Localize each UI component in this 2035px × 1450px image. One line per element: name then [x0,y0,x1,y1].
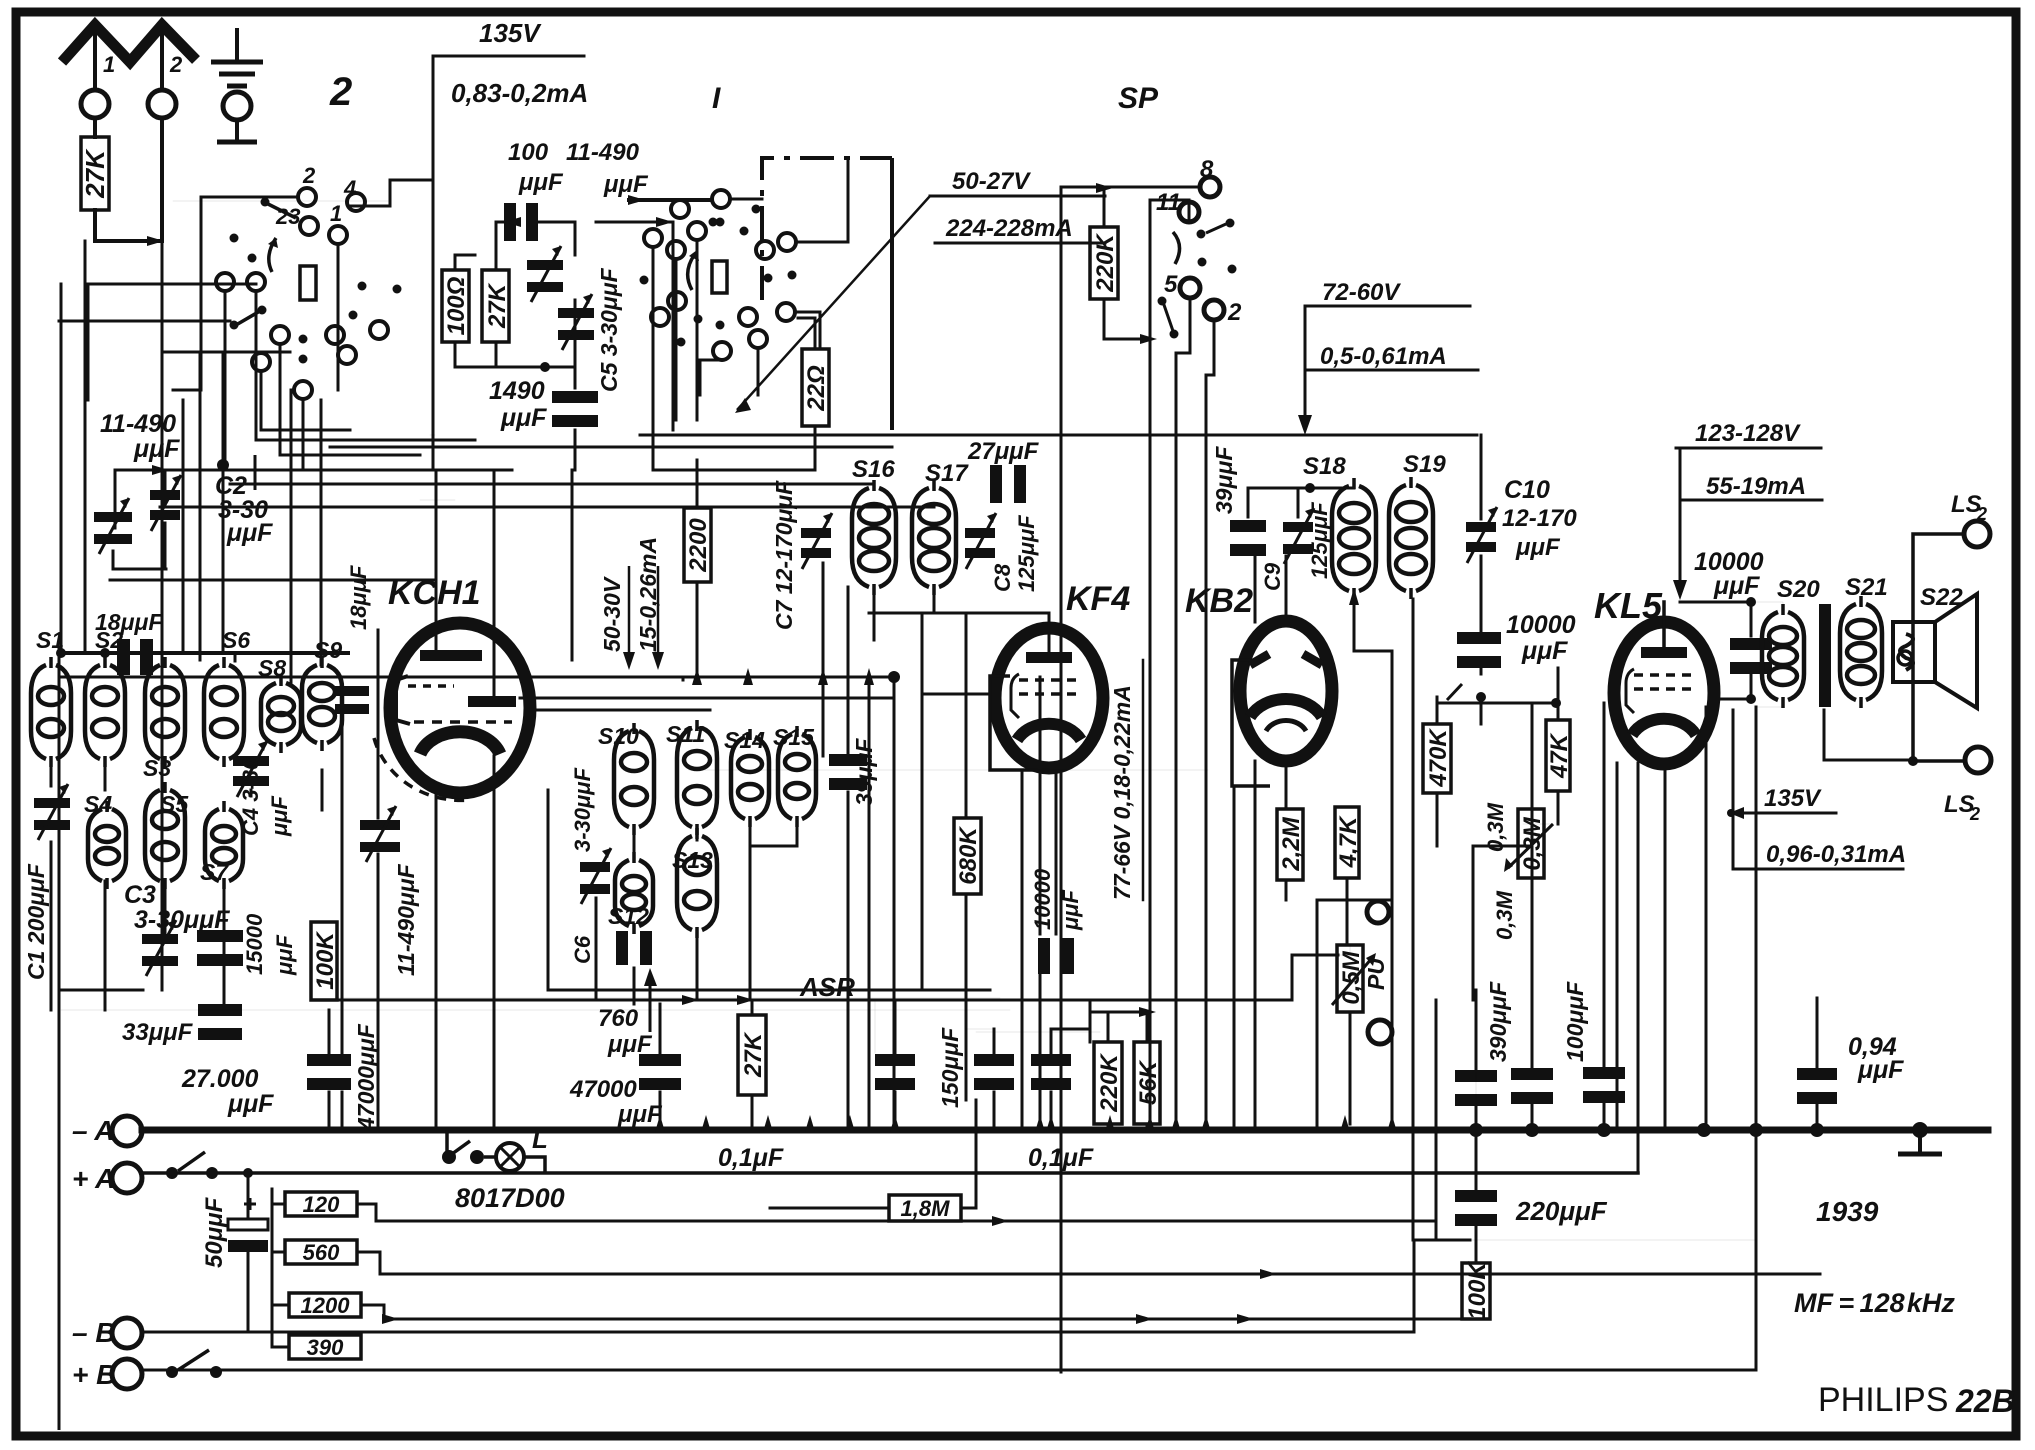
pointer line 135V [432,56,435,470]
label 4 [343,176,356,201]
svg-text:+ A: + A [72,1163,115,1194]
svg-text:47K: 47K [1546,732,1573,779]
label 1490 [489,377,545,405]
wire run y507 [160,506,934,509]
svg-text:11-490μμF: 11-490μμF [393,863,419,976]
switch contact [777,303,795,321]
switch contact [347,193,365,211]
trimmer C1b [150,475,181,531]
wire ASR step [1292,955,1338,1000]
wire [200,197,203,390]
label S8 [258,655,286,681]
label C2 [215,472,247,500]
label SP [1118,82,1159,115]
pointer 135V out [1727,807,1754,819]
wire [335,997,1000,999]
label KB2 [1185,582,1253,620]
wire S15 hook [750,845,797,848]
terminal ground [223,92,251,120]
wire [164,881,167,935]
switch wafer 1 lever [236,203,296,325]
label 23 [275,204,300,229]
switch contact [329,226,347,244]
wire 120 out [357,1204,1434,1221]
tube KCH1 [374,623,530,800]
coil S19 [1389,477,1433,599]
wire [1475,1227,1478,1263]
resistor 5.6K [1134,1042,1162,1124]
svg-text:μμF: μμF [607,1031,653,1058]
svg-text:1,8M: 1,8M [901,1196,951,1221]
bus junction [890,1115,900,1132]
label PU [1363,957,1389,990]
pointer arrow 123-128V [1673,448,1687,600]
label 50uuF [201,1196,228,1268]
bus junction [845,1115,855,1132]
wire [201,196,296,199]
svg-text:μμF: μμF [1521,637,1568,665]
resistor 390 [289,1335,361,1360]
wire [303,469,475,472]
trimmer C7 [801,513,832,569]
pointer underline 0,83-0,2mA [110,579,434,582]
wire bank left [271,1189,274,1347]
wire [234,653,237,661]
variable capacitor C1 [34,784,70,840]
svg-text:1200: 1200 [301,1293,351,1318]
label S5 [160,791,189,817]
switch wafer 1 slot [300,266,316,300]
svg-text:4,7K: 4,7K [1335,815,1362,868]
switch dot [694,315,703,324]
bus junction [805,1115,815,1132]
wire [161,660,164,990]
wire [574,300,577,388]
svg-text:1490: 1490 [489,377,545,405]
wire C10 feed [1480,435,1483,519]
switch arc [1173,232,1180,264]
capacitor 47000uuF [307,1054,351,1090]
bus junction [1597,1123,1611,1137]
wire [796,819,799,846]
switch dot [261,198,270,207]
label +B [72,1359,116,1390]
svg-text:47000: 47000 [569,1076,637,1103]
wire terminal 5 down [1176,298,1190,1130]
wire [341,712,344,1053]
svg-text:μμF: μμF [1515,534,1561,561]
bus junction [1171,1115,1181,1132]
wire [272,1251,285,1254]
wire [115,469,167,472]
wire 22ohm top [798,318,815,349]
svg-text:27K: 27K [484,282,511,329]
capacitor 150uuF [974,1054,1014,1090]
antenna 2 lead arrow [160,30,164,90]
ground bottom right [1898,1130,1942,1154]
label 39uuF IF2 [1211,446,1237,514]
svg-text:2200: 2200 [685,518,712,573]
wire [822,590,825,756]
svg-text:123-128V: 123-128V [1695,420,1801,447]
trimmer C4 [233,741,269,797]
label 50-27V [952,168,1031,195]
arrow 50-30V [623,566,635,670]
switch dot [248,254,257,263]
wire [1557,668,1560,720]
svg-text:120: 120 [303,1192,340,1217]
svg-text:5: 5 [1164,271,1178,298]
bus junction [1749,1123,1763,1137]
label KF4 [1066,580,1130,618]
svg-text:100: 100 [508,139,549,166]
switch contact [338,346,356,364]
wire [1473,845,1532,848]
switch contact [216,273,234,291]
label 0.3M b [1492,890,1517,940]
wire [933,587,936,613]
junction cap in [504,217,521,227]
switch dot [716,218,725,227]
coil S1 [31,657,71,767]
svg-text:27K: 27K [740,1031,767,1078]
switch dot [258,306,267,315]
label S16 [852,456,895,483]
dash-dot box oscillator [762,158,892,430]
wire contact 1 down [337,244,340,390]
pot 0.3M arrow [1504,824,1553,872]
label S9 [314,637,342,663]
svg-text:560: 560 [303,1240,340,1265]
coil S8 [261,675,301,753]
ground terminal lead [217,120,257,142]
wire [534,709,710,712]
wire [455,342,575,367]
label &#956;&#956;F [226,519,273,547]
wire [225,469,303,471]
switch contact [326,326,344,344]
wire [730,198,762,201]
resistor 100K right [1462,1261,1491,1320]
svg-text:0,5-0,61mA: 0,5-0,61mA [1320,343,1447,370]
capacitor 10000uuF coupling [1457,632,1501,668]
wire [1346,900,1349,945]
svg-text:S18: S18 [1303,453,1346,480]
wire run y484 [230,483,874,486]
svg-text:22B: 22B [1955,1383,2015,1419]
label 10000 [1506,611,1576,639]
svg-text:11-490: 11-490 [100,410,176,438]
resistor 100ohm [442,270,470,342]
wire [682,677,685,680]
junction coil bus [743,668,753,685]
wire [162,351,260,353]
terminal -B [112,1318,142,1348]
bus junction [1340,1115,1350,1132]
wire [1391,1000,1394,1130]
wire [675,259,678,420]
wire [696,582,699,677]
svg-text:220K: 220K [1092,233,1119,293]
label 10000 [1694,548,1764,576]
svg-text:μμF: μμF [267,795,292,837]
resistor 470K [1423,724,1452,793]
wire [247,1173,250,1219]
wire [1475,990,1478,1072]
switch contact [671,200,689,218]
coil S12 lower [615,852,653,934]
junction [1136,1314,1153,1324]
label lamp L [532,1124,548,1154]
switch contact [778,233,796,251]
coil S21 [1840,596,1882,708]
svg-text:0,83-0,2mA: 0,83-0,2mA [451,78,588,108]
wire KL5 screen [1714,674,1751,699]
KF4 screen box [990,676,1049,770]
pointer line 0,96mA [1733,710,1753,869]
svg-text:μμF: μμF [518,169,564,196]
wire [1475,1105,1478,1130]
wire [173,389,201,392]
wire [672,222,675,430]
switch dot [1197,230,1206,239]
switch contact [298,188,316,206]
terminal +A [112,1163,142,1193]
wire [224,291,227,470]
label S3 [143,755,171,781]
wire PU top line [1317,899,1392,902]
svg-text:1: 1 [103,52,115,77]
coil S4 [88,801,126,889]
wire IF2 top [1248,487,1354,490]
resistor 120 [285,1192,357,1217]
svg-text:2: 2 [1227,299,1242,326]
wire [1247,488,1250,517]
svg-text:390: 390 [307,1335,344,1360]
label LS2 bottom [1944,791,1975,818]
svg-text:C5 3-30μμF: C5 3-30μμF [596,267,622,392]
wire [659,1004,662,1053]
wire [420,499,455,501]
svg-text:2: 2 [302,163,316,188]
wire [113,551,166,569]
wire [1050,1092,1053,1130]
svg-text:S6: S6 [222,627,250,653]
wire [1603,703,1606,1069]
bus junction [763,1115,773,1132]
label 123-128V [1695,420,1801,447]
svg-text:760: 760 [598,1005,639,1032]
junction [1476,692,1486,702]
wire [1616,763,1619,1130]
svg-text:39μμF: 39μμF [851,738,877,806]
svg-text:μμF: μμF [603,171,649,198]
svg-text:15000: 15000 [242,913,267,975]
label 72-60V [1322,279,1401,306]
wire [1254,556,1257,622]
switch contact [370,321,388,339]
label &#956;&#956;F [1058,889,1083,931]
svg-text:S21: S21 [1845,574,1888,601]
wire [893,677,896,1130]
terminal 8 [1200,177,1220,197]
label 390uuF [1485,981,1511,1062]
junction [1096,183,1113,193]
bus junction [1697,1123,1711,1137]
pointer underline 0,5-0,61mA [1305,369,1478,372]
label 33&#956;&#956;F [122,1019,194,1046]
switch contact [247,273,265,291]
svg-text:11-490: 11-490 [566,139,640,166]
label 1 [103,52,115,77]
wire [1603,1101,1606,1130]
pointer diagonal [735,196,930,413]
wire [328,1010,331,1053]
wire [59,989,143,992]
wire [322,712,352,743]
label 2 [169,52,183,77]
svg-text:3-30μμF: 3-30μμF [134,906,230,934]
svg-text:56K: 56K [1135,1059,1162,1105]
junction [243,1168,253,1178]
wire [223,465,248,478]
terminal +B [112,1359,142,1389]
switch contact [749,330,767,348]
label 2 [1227,299,1242,326]
svg-text:72-60V: 72-60V [1322,279,1401,306]
bus junction [655,1115,665,1132]
label 0,83-0,2mA [451,78,588,108]
wire [50,842,53,1010]
wire [1897,597,1913,599]
resistor 220K top [1090,227,1119,299]
svg-text:100K: 100K [1464,1261,1491,1320]
wire [1436,697,1439,724]
resistor 22ohm [802,349,830,426]
label MF=128kHz [1794,1288,1955,1318]
wire [696,827,699,840]
svg-text:μμF: μμF [500,404,547,432]
svg-text:220μμF: 220μμF [1515,1196,1608,1226]
label 3-30 [218,496,268,524]
switch dot [716,321,725,330]
wire [272,1346,289,1349]
switch dot [740,227,749,236]
svg-text:125μμF: 125μμF [1307,502,1332,579]
svg-text:224-228mA: 224-228mA [945,215,1073,242]
svg-text:50-30V: 50-30V [599,576,625,652]
label S18 [1303,453,1346,480]
capacitor 0.1uF b [1031,1054,1071,1090]
label 0,96-0,31mA [1766,841,1906,868]
wire [749,819,752,1000]
switch dot [299,355,308,364]
label &#956;&#956;F [603,171,649,198]
wire terminal 8 [1061,186,1200,189]
svg-text:135V: 135V [1764,785,1822,812]
label KCH1 [388,574,481,612]
label 100 [508,139,549,166]
svg-text:S9: S9 [314,637,342,663]
wire [965,613,968,818]
resistor 220K bottom [1094,1042,1123,1124]
svg-text:0,3M: 0,3M [1492,890,1517,940]
svg-text:μμF: μμF [1857,1056,1904,1084]
coil S17 [912,480,956,595]
wire S21 core to LS2 [1824,710,1908,760]
coil S18 [1332,478,1376,599]
junction [656,217,673,227]
speaker [1893,594,1977,708]
bus junction [701,1115,711,1132]
junction coil bus [818,668,828,685]
resistor 27K agc [738,1015,767,1095]
label S22 [1920,584,1963,611]
wire [59,676,677,679]
svg-text:50-27V: 50-27V [952,168,1031,195]
svg-text:150μμF: 150μμF [937,1027,963,1108]
svg-text:100K: 100K [312,931,339,990]
wire 1200 out [361,1305,1474,1319]
svg-text:μμF: μμF [227,1090,274,1118]
wire [1103,188,1106,227]
svg-text:27K: 27K [80,148,110,199]
wire ASR line [324,999,1292,1002]
svg-text:33μμF: 33μμF [122,1019,194,1046]
svg-text:100μμF: 100μμF [1562,981,1588,1062]
label -A [72,1115,115,1146]
switch dot [299,335,308,344]
bus junction [1046,1115,1056,1132]
svg-text:C10: C10 [1504,476,1550,504]
switch contact [294,381,312,399]
terminal LS2 bottom [1965,747,1991,773]
label 47000uuF [353,1023,379,1131]
terminal 11 [1179,202,1199,222]
wire [280,344,420,455]
wire [847,587,850,756]
switch dot [1170,330,1179,339]
label 0.1uF a [718,1144,784,1172]
wire [993,1092,996,1130]
wire [1326,945,1350,955]
wire [796,158,848,242]
wire [182,400,185,653]
junction coil bus [864,668,874,685]
label 11 [1156,189,1181,216]
wire [88,283,256,286]
resistor 27K b [482,270,511,342]
svg-text:μμF: μμF [272,934,297,976]
junction [247,1129,249,1131]
bus junction [1810,1123,1824,1137]
wire [493,470,496,698]
junction [628,195,645,205]
junction [1140,334,1157,344]
label C8 [990,563,1015,592]
svg-text:μμF: μμF [226,519,273,547]
wire [495,342,498,367]
label wave-range 2 [329,70,352,114]
wire [770,1207,889,1210]
wire [1107,1124,1110,1130]
svg-text:MF = 128 kHz: MF = 128 kHz [1794,1288,1955,1318]
label &#956;&#956;F [1515,534,1561,561]
bus junction [1387,1115,1397,1132]
svg-text:2: 2 [1969,804,1980,824]
switch +A lever [178,1152,205,1171]
switch +A dot [166,1167,178,1179]
